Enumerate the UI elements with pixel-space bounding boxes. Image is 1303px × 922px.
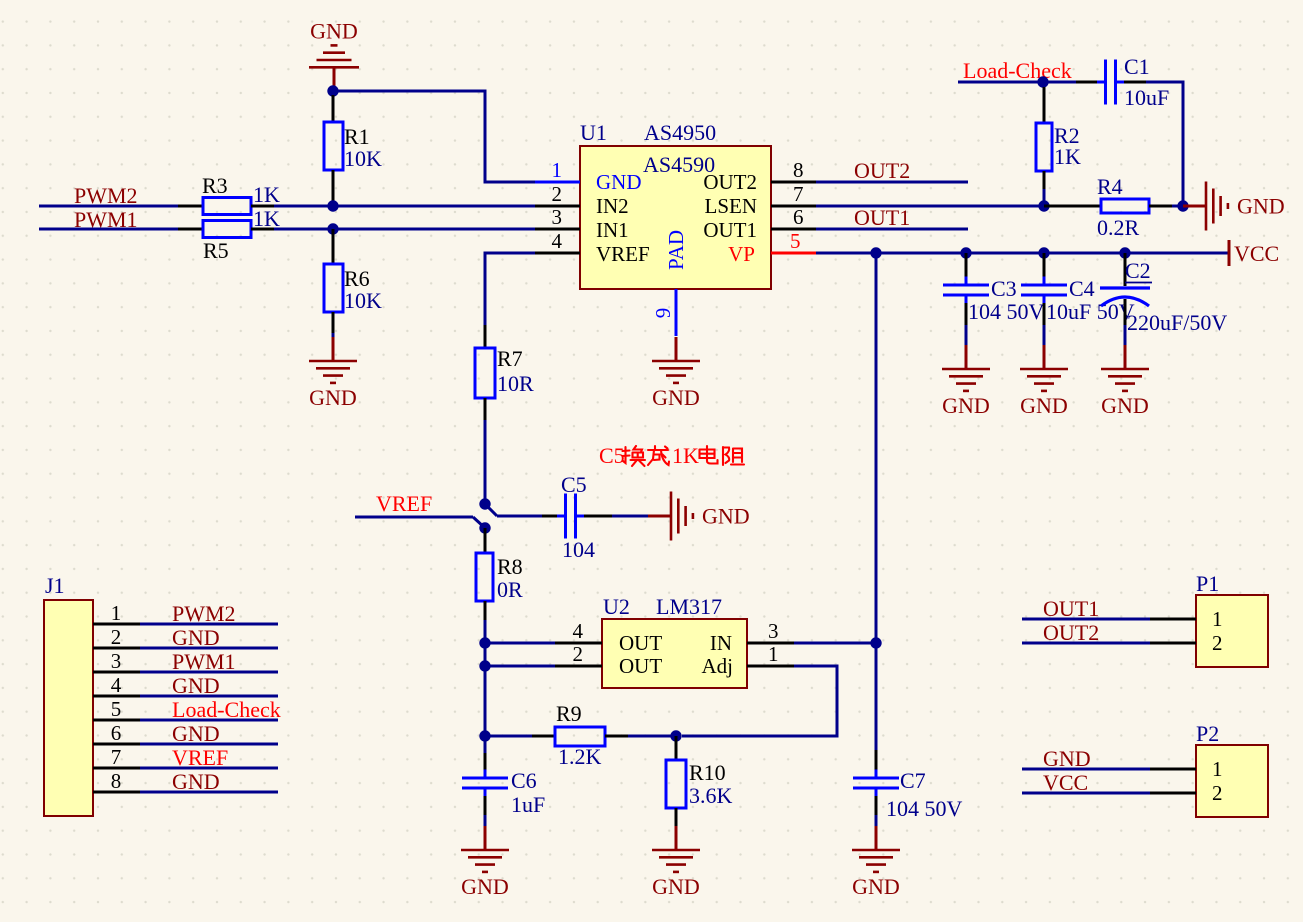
wire: J1 pin 6 net GND: [140, 743, 278, 746]
R10 value 3.6K: [689, 783, 733, 808]
svg-text:C7: C7: [900, 768, 926, 793]
svg-text:GND: GND: [942, 393, 990, 418]
R6 designator: [344, 266, 370, 291]
P2 pin 2 stub: [1150, 792, 1196, 795]
R5 value 1K: [253, 206, 280, 231]
U1 pin 3 name IN1: [596, 218, 629, 242]
net label PWM2 (J1 pin 1): [172, 601, 236, 626]
svg-text:OUT2: OUT2: [854, 158, 910, 183]
U2 designator: [603, 594, 630, 619]
svg-text:104 50V: 104 50V: [886, 796, 963, 821]
note text: C5 change to 1K resistor (red): [599, 443, 744, 468]
connector P2 body: [1196, 745, 1268, 817]
J1 pin 3 stub: [93, 671, 140, 674]
wire: R7 bottom to C5 node: [484, 420, 487, 504]
wire: PWM1 node to U1 pin 3 (IN1): [251, 228, 535, 231]
C6 designator: [511, 768, 537, 793]
svg-text:10uF: 10uF: [1124, 85, 1169, 110]
P1 designator: [1196, 571, 1219, 596]
junction: U2 pin2 node: [479, 660, 490, 671]
U1 pin 6 stub: [771, 228, 816, 231]
capacitor C6: [462, 736, 508, 832]
U1 pin 9 stub (PAD): [675, 289, 678, 336]
wire: J1 pin 1 net PWM2: [140, 623, 278, 626]
resistor R3: [178, 198, 274, 215]
svg-text:GND: GND: [172, 769, 220, 794]
svg-text:VP: VP: [728, 242, 755, 266]
resistor R4: [1044, 199, 1172, 213]
svg-text:6: 6: [111, 721, 122, 745]
R6 value 10K: [344, 288, 382, 313]
U1 pin 2 name IN2: [596, 194, 629, 218]
svg-text:C5: C5: [561, 472, 587, 497]
R4 value 0.2R: [1097, 215, 1140, 240]
C7 designator: [900, 768, 926, 793]
power ground symbol GND (top, above R1): [309, 18, 359, 88]
svg-text:C4: C4: [1069, 276, 1095, 301]
connector J1 body: [44, 600, 93, 816]
C6 value 1uF: [511, 792, 545, 817]
net label VREF (J1 pin 7): [172, 745, 228, 770]
wire: VCC rail from U1 pin 5 to VCC port: [816, 252, 1229, 255]
svg-text:LSEN: LSEN: [705, 194, 758, 218]
svg-text:1K: 1K: [1054, 144, 1081, 169]
svg-text:GND: GND: [172, 625, 220, 650]
U1 pin number 8: [793, 158, 804, 182]
svg-text:GND: GND: [310, 18, 358, 43]
capacitor C2 (polarized): [1100, 253, 1150, 346]
net label OUT1 (at U1): [854, 205, 910, 230]
P2 designator: [1196, 721, 1219, 746]
U1 pin number 9: [651, 308, 675, 319]
wire: U2 Adj loop to R9/R10 node: [682, 666, 837, 736]
J1 pin number 8: [111, 769, 122, 793]
wire: J1 pin 4 net GND: [140, 695, 278, 698]
junction: VCC rail at C2: [1119, 247, 1130, 258]
U2 pin 4 name OUT: [619, 631, 662, 655]
U1 pin 3 stub: [535, 228, 580, 231]
wire: OUT2 net from U1 pin 8: [816, 181, 968, 184]
svg-text:6: 6: [793, 205, 804, 229]
svg-text:GND: GND: [309, 385, 357, 410]
svg-text:U2: U2: [603, 594, 630, 619]
svg-text:R7: R7: [497, 346, 523, 371]
svg-text:GND: GND: [652, 874, 700, 899]
J1 pin 5 stub: [93, 719, 140, 722]
svg-text:GND: GND: [1237, 194, 1285, 219]
svg-text:IN1: IN1: [596, 218, 629, 242]
wire: PWM2 node to U1 pin 2 (IN2): [251, 205, 535, 208]
junction: IN1 / R6 / R5 node: [327, 223, 338, 234]
svg-text:10uF 50V: 10uF 50V: [1046, 299, 1135, 324]
U2 pin 3 stub: [747, 642, 794, 645]
net label PWM1: [74, 207, 138, 232]
net label GND (J1 pin 4): [172, 673, 220, 698]
U1 pin 8 name OUT2: [703, 170, 757, 194]
svg-text:1K: 1K: [253, 182, 280, 207]
svg-text:3.6K: 3.6K: [689, 783, 733, 808]
C5 value 104: [562, 537, 595, 562]
net label GND (J1 pin 6): [172, 721, 220, 746]
svg-text:1K: 1K: [253, 206, 280, 231]
wire: node to C5 (with jog): [485, 504, 542, 516]
wire: J1 pin 2 net GND: [140, 647, 278, 650]
junction: VCC rail at x=876 (to LM317/C7): [870, 247, 881, 258]
capacitor C7: [853, 750, 899, 832]
P2 pin number 1: [1212, 757, 1223, 781]
wire: OUT1 to P1 pin 1: [1022, 618, 1150, 621]
wire: GND net from R1-top junction to U1 pin 1: [333, 91, 535, 182]
IC U1 AS4950 body: [580, 146, 771, 289]
J1 pin number 5: [111, 697, 122, 721]
J1 pin number 4: [111, 673, 122, 697]
power ground symbol below C6: [461, 826, 509, 899]
junction: IN2 / R1 / R3 node: [327, 200, 338, 211]
U1 pin 8 stub: [771, 181, 816, 184]
svg-text:LM317: LM317: [656, 594, 722, 619]
U1 pin number 5: [790, 229, 801, 253]
U1 part name AS4950: [644, 120, 716, 145]
U2 pin 2 name OUT: [619, 654, 662, 678]
resistor R10: [666, 736, 686, 831]
net label GND (J1 pin 8): [172, 769, 220, 794]
J1 designator: [45, 573, 65, 598]
wire: R4 to ground node: [1172, 205, 1183, 208]
net label VREF: [376, 491, 432, 516]
svg-text:Adj: Adj: [702, 654, 734, 678]
svg-text:P1: P1: [1196, 571, 1219, 596]
svg-text:IN2: IN2: [596, 194, 629, 218]
svg-text:3: 3: [552, 205, 563, 229]
svg-text:GND: GND: [596, 170, 642, 194]
svg-text:104: 104: [562, 537, 595, 562]
U1 pin 2 stub: [535, 205, 580, 208]
J1 pin 4 stub: [93, 695, 140, 698]
junction: LM317 IN node: [870, 637, 881, 648]
svg-text:2: 2: [573, 642, 584, 666]
net label GND (at P2): [1043, 746, 1091, 771]
svg-text:9: 9: [651, 308, 675, 319]
R9 value 1.2K: [558, 744, 602, 769]
svg-text:1K: 1K: [672, 443, 699, 468]
wire: Load-Check to R2 top: [958, 81, 1043, 84]
svg-text:OUT2: OUT2: [703, 170, 757, 194]
svg-text:VCC: VCC: [1043, 770, 1088, 795]
svg-text:C5: C5: [599, 443, 625, 468]
power port VCC: [1229, 240, 1279, 266]
wire: node to C1: [1043, 81, 1097, 84]
power ground symbol below C4: [1020, 345, 1068, 418]
net label GND (J1 pin 2): [172, 625, 220, 650]
J1 pin 1 stub: [93, 623, 140, 626]
R10 designator: [689, 760, 726, 785]
U1 pin number 6: [793, 205, 804, 229]
connector P1 body: [1196, 595, 1268, 667]
svg-text:220uF/50V: 220uF/50V: [1127, 310, 1227, 335]
svg-text:OUT: OUT: [619, 631, 662, 655]
U2 pin 4 stub: [555, 642, 602, 645]
P1 pin 1 stub: [1150, 618, 1196, 621]
svg-text:1.2K: 1.2K: [558, 744, 602, 769]
wire: OUT1 net from U1 pin 6: [816, 228, 968, 231]
power ground symbol below C7: [852, 826, 900, 899]
wire: OUT2 to P1 pin 2: [1022, 642, 1150, 645]
R9 designator: [556, 701, 582, 726]
R4 designator: [1097, 174, 1123, 199]
wire: U1 pin4 VREF down to R7: [485, 253, 535, 325]
U1 pin number 1: [552, 158, 563, 182]
J1 pin number 2: [111, 625, 122, 649]
svg-text:PWM1: PWM1: [172, 649, 236, 674]
R1 value 10K: [344, 146, 382, 171]
svg-text:7: 7: [793, 182, 804, 206]
svg-text:VREF: VREF: [596, 242, 650, 266]
C2 value 220uF/50V: [1127, 310, 1227, 335]
net label PWM2: [74, 183, 138, 208]
junction: VCC rail at C3: [960, 247, 971, 258]
wire: node to U2 pin 4: [485, 642, 555, 645]
svg-text:4: 4: [552, 229, 563, 253]
power ground symbol right of R4 (sideways): [1183, 182, 1285, 231]
svg-text:0R: 0R: [497, 577, 523, 602]
svg-text:0.2R: 0.2R: [1097, 215, 1140, 240]
U2 pin 2 stub: [555, 665, 602, 668]
net label Load-Check (J1 pin 5): [172, 697, 281, 722]
svg-text:C2: C2: [1125, 258, 1151, 283]
U1 pin 7 stub: [771, 205, 816, 208]
svg-text:8: 8: [111, 769, 122, 793]
R8 value 0R: [497, 577, 523, 602]
svg-text:10R: 10R: [497, 371, 534, 396]
U1 pin 5 stub (VP, highlighted): [771, 252, 818, 255]
resistor R6: [324, 229, 343, 340]
svg-text:5: 5: [111, 697, 122, 721]
net label PWM1 (J1 pin 3): [172, 649, 236, 674]
U1 pin 1 stub: [535, 181, 580, 184]
junction: R9 / R10 / Adj node: [670, 730, 681, 741]
wire: VCC to P2 pin 2: [1022, 792, 1150, 795]
svg-text:3: 3: [111, 649, 122, 673]
U1 designator: [580, 120, 607, 145]
U2 pin number 2: [573, 642, 584, 666]
U1 internal label AS4590: [643, 152, 715, 177]
wire: VREF from label to node: [355, 517, 485, 528]
R3 value 1K: [253, 182, 280, 207]
wire: PWM2 from left edge to R3: [39, 205, 203, 208]
svg-text:PWM2: PWM2: [74, 183, 138, 208]
svg-text:1: 1: [111, 601, 122, 625]
U1 pin number 7: [793, 182, 804, 206]
U2 part name LM317: [656, 594, 722, 619]
resistor R8: [476, 528, 493, 643]
wire: U2 IN to VCC branch: [794, 642, 876, 645]
J1 pin 7 stub: [93, 767, 140, 770]
svg-text:PWM2: PWM2: [172, 601, 236, 626]
R2 designator: [1054, 123, 1080, 148]
svg-text:10K: 10K: [344, 288, 382, 313]
svg-text:C3: C3: [991, 276, 1017, 301]
power ground symbol below C3: [942, 345, 990, 418]
svg-text:PAD: PAD: [664, 230, 688, 270]
C2 designator (underlined): [1125, 258, 1152, 283]
svg-text:8: 8: [793, 158, 804, 182]
C4 value 10uF 50V: [1046, 299, 1135, 324]
junction: Load-Check / R2 / C1 node: [1037, 76, 1048, 87]
svg-text:1: 1: [1212, 607, 1223, 631]
U2 pin 1 name Adj: [702, 654, 734, 678]
C7 value 104 50V: [886, 796, 963, 821]
power ground symbol below C2: [1101, 345, 1149, 418]
J1 pin 2 stub: [93, 647, 140, 650]
R3 designator: [202, 173, 228, 198]
svg-text:OUT1: OUT1: [1043, 596, 1099, 621]
net label OUT2 (at U1): [854, 158, 910, 183]
U1 pin 6 name OUT1: [703, 218, 757, 242]
svg-text:GND: GND: [461, 874, 509, 899]
P1 pin 2 stub: [1150, 642, 1196, 645]
svg-text:5: 5: [790, 229, 801, 253]
P1 pin number 1: [1212, 607, 1223, 631]
svg-text:1: 1: [1212, 757, 1223, 781]
J1 pin number 1: [111, 601, 122, 625]
capacitor C3: [943, 253, 989, 346]
svg-text:OUT2: OUT2: [1043, 620, 1099, 645]
U2 pin number 3: [768, 619, 779, 643]
capacitor C1: [1097, 60, 1124, 105]
svg-text:VREF: VREF: [172, 745, 228, 770]
net label OUT1 (at P1): [1043, 596, 1099, 621]
P1 pin number 2: [1212, 631, 1223, 655]
junction: VCC rail at C4: [1038, 247, 1049, 258]
wire: C1 to R4-right node: [1124, 82, 1183, 206]
J1 pin number 7: [111, 745, 122, 769]
net label VCC (at P2): [1043, 770, 1088, 795]
U1 pin number 3: [552, 205, 563, 229]
resistor R1: [324, 95, 343, 203]
P2 pin 1 stub: [1150, 768, 1196, 771]
svg-text:AS4950: AS4950: [644, 120, 716, 145]
C3 designator: [991, 276, 1017, 301]
svg-text:1: 1: [552, 158, 563, 182]
J1 pin number 3: [111, 649, 122, 673]
svg-text:4: 4: [573, 619, 584, 643]
svg-text:GND: GND: [172, 721, 220, 746]
svg-text:OUT: OUT: [619, 654, 662, 678]
U2 pin number 1: [768, 642, 779, 666]
svg-text:2: 2: [1212, 631, 1223, 655]
power ground symbol below R6: [309, 337, 357, 410]
J1 pin 8 stub: [93, 791, 140, 794]
J1 pin number 6: [111, 721, 122, 745]
junction: R8/C6/R9 node: [479, 730, 490, 741]
svg-text:GND: GND: [1101, 393, 1149, 418]
svg-text:R5: R5: [203, 238, 229, 263]
svg-text:GND: GND: [1020, 393, 1068, 418]
svg-text:104 50V: 104 50V: [968, 299, 1045, 324]
R8 designator: [497, 554, 523, 579]
svg-text:Load-Check: Load-Check: [963, 58, 1072, 83]
U1 pin 9 name PAD: [664, 230, 688, 270]
U1 pin 5 name VP: [728, 242, 755, 266]
svg-text:GND: GND: [702, 504, 750, 529]
U2 pin 3 name IN: [710, 631, 732, 655]
U1 pin 4 name VREF: [596, 242, 650, 266]
svg-text:2: 2: [1212, 781, 1223, 805]
svg-text:R4: R4: [1097, 174, 1123, 199]
U1 pin number 2: [552, 182, 563, 206]
U2 pin number 4: [573, 619, 584, 643]
wire: LSEN net from U1 pin 7 to R2/R4 node: [816, 205, 1044, 208]
R2 value 1K: [1054, 144, 1081, 169]
U1 pin 1 name GND: [596, 170, 642, 194]
svg-text:4: 4: [111, 673, 122, 697]
svg-text:C1: C1: [1124, 54, 1150, 79]
svg-text:3: 3: [768, 619, 779, 643]
C4 designator: [1069, 276, 1095, 301]
svg-text:R9: R9: [556, 701, 582, 726]
wire: J1 pin 5 net Load-Check: [140, 719, 278, 722]
wire: node to U2 pin 2: [485, 665, 555, 668]
capacitor C4: [1021, 253, 1067, 346]
junction: VREF / R8 node: [479, 522, 490, 533]
net label Load-Check: [963, 58, 1072, 83]
svg-text:7: 7: [111, 745, 122, 769]
svg-text:R3: R3: [202, 173, 228, 198]
svg-text:2: 2: [552, 182, 563, 206]
junction: GND net at R1 top: [327, 85, 338, 96]
capacitor C5: [542, 494, 612, 539]
svg-text:OUT1: OUT1: [854, 205, 910, 230]
svg-text:1: 1: [768, 642, 779, 666]
C5 designator: [561, 472, 587, 497]
svg-text:10K: 10K: [344, 146, 382, 171]
wire: C5 to ground: [612, 515, 649, 518]
resistor R5: [178, 221, 274, 238]
junction: U2 pin4 node: [479, 637, 490, 648]
resistor R9: [485, 727, 676, 746]
svg-text:U1: U1: [580, 120, 607, 145]
J1 pin 6 stub: [93, 743, 140, 746]
wire: VCC node down to LM317 IN and C7: [875, 253, 878, 750]
wire: R8 node down to R9 node: [484, 643, 487, 736]
P2 pin number 2: [1212, 781, 1223, 805]
svg-text:GND: GND: [852, 874, 900, 899]
svg-text:VCC: VCC: [1234, 241, 1279, 266]
C3 value 104 50V: [968, 299, 1045, 324]
wire: J1 pin 7 net VREF: [140, 767, 278, 770]
R7 value 10R: [497, 371, 534, 396]
junction: R7 / C5 node: [479, 498, 490, 509]
R7 designator: [497, 346, 523, 371]
junction: R4 / C1 / GND node: [1177, 200, 1188, 211]
resistor R2: [1036, 87, 1052, 203]
svg-text:R10: R10: [689, 760, 726, 785]
power ground symbol right of C5 (sideways): [648, 492, 750, 541]
wire: J1 pin 8 net GND: [140, 791, 278, 794]
net label OUT2 (at P1): [1043, 620, 1099, 645]
wire: PWM1 from left edge to R5: [39, 228, 203, 231]
wire: GND to P2 pin 1: [1022, 768, 1150, 771]
wire: J1 pin 3 net PWM1: [140, 671, 278, 674]
U2 pin 1 stub: [747, 665, 794, 668]
svg-text:Load-Check: Load-Check: [172, 697, 281, 722]
C1 value 10uF: [1124, 85, 1169, 110]
U1 pin 4 stub: [535, 252, 580, 255]
R1 designator: [344, 124, 370, 149]
R5 designator: [203, 238, 229, 263]
svg-text:GND: GND: [172, 673, 220, 698]
junction: R2 bottom / LSEN / R4 node: [1038, 200, 1049, 211]
